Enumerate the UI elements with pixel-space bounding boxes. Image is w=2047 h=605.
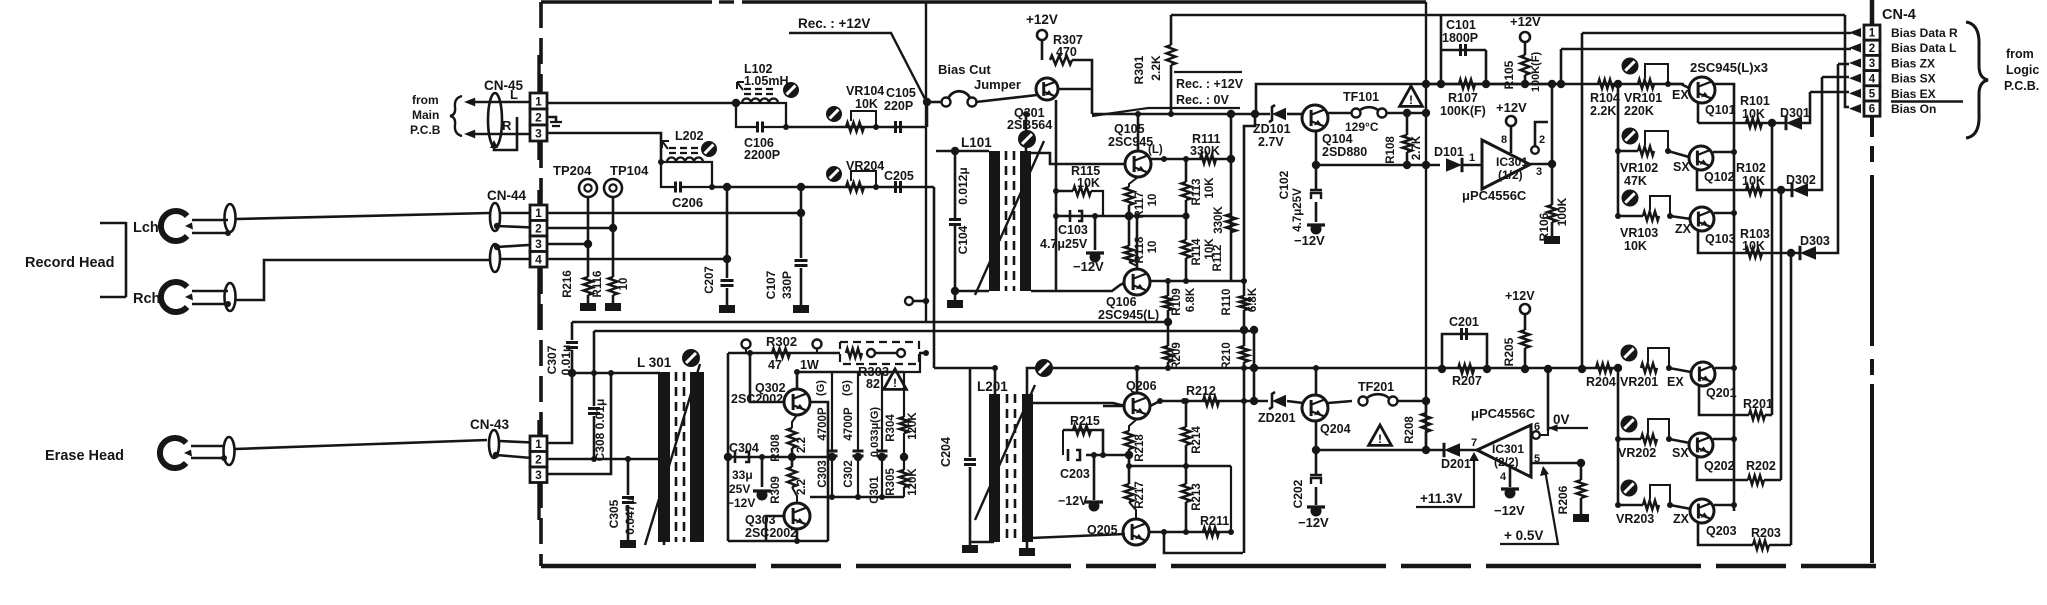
svg-text:2: 2 <box>535 110 542 124</box>
svg-text:R204: R204 <box>1586 375 1616 389</box>
svg-text:TF201: TF201 <box>1358 380 1394 394</box>
svg-text:C303: C303 <box>817 460 829 488</box>
svg-text:Q101: Q101 <box>1705 103 1736 117</box>
svg-text:6.8K: 6.8K <box>1247 287 1259 312</box>
svg-text:C308 0.01μ: C308 0.01μ <box>593 399 607 462</box>
svg-text:4700P: 4700P <box>843 407 855 441</box>
svg-text:0V: 0V <box>1553 412 1570 427</box>
svg-text:+ 0.5V: + 0.5V <box>1504 528 1543 543</box>
svg-text:470: 470 <box>1056 45 1077 59</box>
svg-text:D201: D201 <box>1441 457 1471 471</box>
svg-text:ZX: ZX <box>1673 512 1690 526</box>
svg-text:C304: C304 <box>729 441 759 455</box>
svg-text:R211: R211 <box>1200 514 1229 528</box>
svg-text:120K: 120K <box>907 468 919 496</box>
svg-text:ZX: ZX <box>1675 222 1692 236</box>
svg-text:47: 47 <box>768 358 782 372</box>
svg-text:P.C.B.: P.C.B. <box>2004 79 2039 93</box>
svg-text:VR102: VR102 <box>1620 161 1658 175</box>
svg-text:Erase Head: Erase Head <box>45 448 124 464</box>
svg-text:2: 2 <box>535 222 542 236</box>
svg-text:IC301: IC301 <box>1492 442 1524 456</box>
svg-text:Rec. : +12V: Rec. : +12V <box>1176 77 1244 91</box>
svg-text:ZD101: ZD101 <box>1253 122 1291 136</box>
svg-text:−12V: −12V <box>1294 233 1325 248</box>
svg-text:TP204: TP204 <box>553 163 592 178</box>
svg-text:L101: L101 <box>961 135 992 150</box>
svg-text:CN-43: CN-43 <box>470 417 510 432</box>
svg-text:C107: C107 <box>764 270 778 299</box>
svg-text:Q206: Q206 <box>1126 379 1157 393</box>
svg-text:CN-44: CN-44 <box>487 188 527 203</box>
svg-text:R304: R304 <box>885 414 897 442</box>
svg-text:!: ! <box>1378 432 1382 446</box>
svg-text:C302: C302 <box>843 460 855 488</box>
svg-text:Record Head: Record Head <box>25 255 114 271</box>
svg-text:0.047μ: 0.047μ <box>623 497 637 534</box>
svg-text:3: 3 <box>535 126 542 140</box>
svg-text:R214: R214 <box>1191 426 1203 454</box>
svg-text:L202: L202 <box>675 129 704 143</box>
svg-text:4700P: 4700P <box>817 407 829 441</box>
svg-text:2SD880: 2SD880 <box>1322 145 1367 159</box>
svg-text:(G): (G) <box>815 380 827 396</box>
svg-text:R202: R202 <box>1746 459 1776 473</box>
svg-text:10K: 10K <box>1624 239 1647 253</box>
svg-text:D101: D101 <box>1434 145 1464 159</box>
svg-text:2: 2 <box>535 453 542 467</box>
svg-text:R309: R309 <box>770 476 782 504</box>
svg-text:R206: R206 <box>1556 485 1570 514</box>
svg-text:1: 1 <box>1469 152 1475 164</box>
svg-text:R106: R106 <box>1537 212 1551 241</box>
svg-text:VR204: VR204 <box>846 159 884 173</box>
svg-text:2SC945(L)x3: 2SC945(L)x3 <box>1690 60 1768 75</box>
svg-text:R: R <box>502 118 512 133</box>
svg-text:C104: C104 <box>956 225 970 254</box>
svg-text:4: 4 <box>1869 73 1876 85</box>
svg-text:from: from <box>2006 47 2034 61</box>
svg-text:4: 4 <box>1500 471 1507 483</box>
svg-text:−12V: −12V <box>1298 515 1329 530</box>
svg-text:R215: R215 <box>1070 414 1100 428</box>
svg-text:(L): (L) <box>1148 144 1163 156</box>
svg-text:3: 3 <box>535 237 542 251</box>
svg-text:R212: R212 <box>1186 384 1216 398</box>
svg-text:10: 10 <box>1147 194 1159 207</box>
svg-text:C202: C202 <box>1291 479 1305 508</box>
svg-text:4.7μ25V: 4.7μ25V <box>1292 188 1304 232</box>
svg-text:D302: D302 <box>1786 173 1816 187</box>
svg-text:Bias SX: Bias SX <box>1891 72 1936 86</box>
svg-text:VR104: VR104 <box>846 84 884 98</box>
svg-text:100K: 100K <box>1555 197 1569 226</box>
svg-text:CN-4: CN-4 <box>1882 7 1916 23</box>
svg-text:L: L <box>510 87 518 102</box>
svg-text:3: 3 <box>1536 166 1542 178</box>
svg-text:EX: EX <box>1672 88 1689 102</box>
svg-text:10K: 10K <box>1204 238 1216 260</box>
svg-text:R101: R101 <box>1740 94 1770 108</box>
svg-text:C207: C207 <box>704 266 716 294</box>
svg-text:Bias ZX: Bias ZX <box>1891 56 1935 70</box>
svg-text:Q204: Q204 <box>1320 422 1351 436</box>
svg-text:3: 3 <box>535 468 542 482</box>
svg-text:(1/2): (1/2) <box>1498 168 1523 182</box>
svg-text:+12V: +12V <box>1026 12 1058 27</box>
svg-text:0.033μ(G): 0.033μ(G) <box>869 407 881 457</box>
svg-text:2.7K: 2.7K <box>1411 135 1423 160</box>
svg-text:Q103: Q103 <box>1705 232 1736 246</box>
svg-text:C101: C101 <box>1446 18 1476 32</box>
svg-text:−12V: −12V <box>1073 259 1104 274</box>
svg-text:VR101: VR101 <box>1624 91 1662 105</box>
svg-text:R213: R213 <box>1191 483 1203 511</box>
svg-text:R113: R113 <box>1191 179 1203 206</box>
svg-text:129°C: 129°C <box>1345 120 1379 134</box>
svg-text:2SC2002: 2SC2002 <box>745 526 797 540</box>
svg-text:10K: 10K <box>1742 239 1765 253</box>
svg-text:Bias EX: Bias EX <box>1891 87 1936 101</box>
svg-text:Bias On: Bias On <box>1891 102 1936 116</box>
svg-text:10: 10 <box>618 278 630 291</box>
svg-text:Rch: Rch <box>133 291 160 307</box>
svg-text:330P: 330P <box>780 271 794 299</box>
svg-text:−12V: −12V <box>1058 494 1088 508</box>
svg-text:10: 10 <box>1147 241 1159 254</box>
svg-text:2.7V: 2.7V <box>1258 135 1284 149</box>
svg-text:R218: R218 <box>1134 434 1146 462</box>
svg-text:Bias Data R: Bias Data R <box>1891 26 1958 40</box>
svg-text:R109: R109 <box>1171 288 1183 316</box>
svg-text:+12V: +12V <box>1505 289 1535 303</box>
svg-text:33μ: 33μ <box>732 468 753 482</box>
svg-text:0.012μ: 0.012μ <box>956 167 970 204</box>
svg-text:82: 82 <box>866 377 880 391</box>
svg-text:R209: R209 <box>1171 342 1183 370</box>
svg-text:Lch: Lch <box>133 220 159 236</box>
svg-text:1.05mH: 1.05mH <box>744 74 788 88</box>
svg-text:1: 1 <box>535 94 542 108</box>
svg-text:Main: Main <box>412 108 439 122</box>
svg-text:100K(F): 100K(F) <box>1440 104 1486 118</box>
svg-text:C204: C204 <box>939 437 953 467</box>
svg-text:from: from <box>412 93 439 107</box>
svg-text:R107: R107 <box>1448 91 1478 105</box>
svg-text:R207: R207 <box>1452 374 1482 388</box>
svg-text:220K: 220K <box>1624 104 1654 118</box>
svg-text:47K: 47K <box>1624 174 1647 188</box>
svg-text:L 301: L 301 <box>637 355 672 370</box>
svg-text:R210: R210 <box>1221 342 1233 370</box>
svg-text:1W: 1W <box>800 358 819 372</box>
svg-text:R205: R205 <box>1502 337 1516 366</box>
svg-text:10K: 10K <box>855 97 878 111</box>
svg-text:C206: C206 <box>672 195 703 210</box>
svg-text:R102: R102 <box>1736 161 1766 175</box>
svg-text:+12V: +12V <box>1496 100 1527 115</box>
svg-text:R104: R104 <box>1590 91 1620 105</box>
svg-text:Q202: Q202 <box>1704 459 1735 473</box>
svg-text:VR203: VR203 <box>1616 512 1654 526</box>
svg-text:R114: R114 <box>1191 238 1203 265</box>
svg-text:ZD201: ZD201 <box>1258 411 1296 425</box>
svg-text:2.2: 2.2 <box>796 437 808 453</box>
svg-text:2SC945(L): 2SC945(L) <box>1098 308 1159 322</box>
svg-text:R301: R301 <box>1132 55 1146 84</box>
svg-text:TP104: TP104 <box>610 163 649 178</box>
svg-text:6: 6 <box>1534 421 1540 433</box>
svg-text:10K: 10K <box>1204 177 1216 199</box>
svg-text:C103: C103 <box>1058 223 1088 237</box>
svg-text:C201: C201 <box>1449 315 1479 329</box>
svg-text:R217: R217 <box>1134 481 1146 509</box>
svg-text:VR201: VR201 <box>1620 375 1658 389</box>
svg-text:2SC2002: 2SC2002 <box>731 392 783 406</box>
svg-text:R201: R201 <box>1743 397 1773 411</box>
svg-text:!: ! <box>893 376 897 390</box>
svg-text:SX: SX <box>1672 446 1689 460</box>
svg-text:5: 5 <box>1869 89 1876 101</box>
svg-text:C105: C105 <box>886 86 916 100</box>
svg-text:Logic: Logic <box>2006 63 2039 77</box>
svg-text:C307: C307 <box>545 345 559 374</box>
svg-text:L201: L201 <box>977 379 1008 394</box>
svg-text:SX: SX <box>1673 160 1690 174</box>
svg-text:0.01μ: 0.01μ <box>559 345 573 376</box>
svg-text:Bias Cut: Bias Cut <box>938 62 991 77</box>
svg-text:P.C.B: P.C.B <box>410 123 441 137</box>
svg-text:2: 2 <box>1539 134 1545 146</box>
svg-text:4.7μ25V: 4.7μ25V <box>1040 237 1088 251</box>
svg-text:6.8K: 6.8K <box>1185 287 1197 312</box>
svg-text:1: 1 <box>535 437 542 451</box>
svg-text:1: 1 <box>1869 28 1876 40</box>
svg-text:10K: 10K <box>1077 176 1100 190</box>
svg-text:Q205: Q205 <box>1087 523 1118 537</box>
svg-text:Rec. : 0V: Rec. : 0V <box>1176 93 1229 107</box>
svg-text:120K: 120K <box>907 412 919 440</box>
svg-text:Q203: Q203 <box>1706 524 1737 538</box>
svg-text:10K: 10K <box>1742 174 1765 188</box>
svg-text:R302: R302 <box>766 334 797 349</box>
svg-text:330K: 330K <box>1190 144 1220 158</box>
svg-text:220P: 220P <box>884 99 913 113</box>
svg-text:D301: D301 <box>1780 106 1810 120</box>
svg-text:25V: 25V <box>729 482 750 496</box>
svg-text:!: ! <box>1409 93 1413 107</box>
svg-text:7: 7 <box>1471 437 1477 449</box>
svg-text:3: 3 <box>1869 58 1875 70</box>
svg-text:IC301: IC301 <box>1496 155 1528 169</box>
svg-text:C203: C203 <box>1060 467 1090 481</box>
svg-text:R116: R116 <box>592 271 604 298</box>
svg-text:2200P: 2200P <box>744 148 780 162</box>
svg-text:C102: C102 <box>1277 170 1291 199</box>
svg-text:330K: 330K <box>1213 206 1225 234</box>
svg-text:2SB564: 2SB564 <box>1007 118 1052 132</box>
svg-text:2.2: 2.2 <box>796 479 808 495</box>
svg-text:2.2K: 2.2K <box>1590 104 1616 118</box>
svg-text:−12V: −12V <box>1494 503 1525 518</box>
svg-text:Q106: Q106 <box>1106 295 1137 309</box>
svg-text:Q102: Q102 <box>1704 170 1735 184</box>
svg-text:2.2K: 2.2K <box>1149 55 1163 81</box>
svg-text:C205: C205 <box>884 169 914 183</box>
svg-text:μPC4556C: μPC4556C <box>1462 188 1527 203</box>
svg-text:VR202: VR202 <box>1618 446 1656 460</box>
svg-text:−12V: −12V <box>727 496 755 510</box>
svg-text:8: 8 <box>1501 134 1507 146</box>
svg-text:1: 1 <box>535 206 542 220</box>
svg-text:2SC945: 2SC945 <box>1108 135 1153 149</box>
svg-text:2: 2 <box>1869 43 1875 55</box>
svg-text:Rec. : +12V: Rec. : +12V <box>798 16 870 31</box>
svg-text:+11.3V: +11.3V <box>1420 491 1462 506</box>
svg-text:EX: EX <box>1667 375 1684 389</box>
svg-text:R216: R216 <box>562 270 574 298</box>
svg-text:Jumper: Jumper <box>974 77 1021 92</box>
svg-text:R203: R203 <box>1751 526 1781 540</box>
svg-text:(2/2): (2/2) <box>1494 455 1519 469</box>
svg-text:R108: R108 <box>1385 136 1397 164</box>
svg-text:Q201: Q201 <box>1706 386 1737 400</box>
svg-text:(G): (G) <box>841 380 853 396</box>
svg-text:1800P: 1800P <box>1442 31 1478 45</box>
svg-text:10K: 10K <box>1742 107 1765 121</box>
svg-text:C301: C301 <box>869 476 881 504</box>
svg-text:C305: C305 <box>607 499 621 528</box>
svg-text:R305: R305 <box>885 468 897 496</box>
svg-text:Bias Data L: Bias Data L <box>1891 41 1956 55</box>
svg-text:R110: R110 <box>1221 289 1233 316</box>
svg-text:6: 6 <box>1869 104 1875 116</box>
svg-text:D303: D303 <box>1800 234 1830 248</box>
svg-text:Q105: Q105 <box>1114 122 1145 136</box>
svg-text:μPC4556C: μPC4556C <box>1471 406 1536 421</box>
svg-text:VR103: VR103 <box>1620 226 1658 240</box>
svg-text:R208: R208 <box>1404 416 1416 444</box>
svg-text:4: 4 <box>535 253 542 267</box>
svg-text:Q104: Q104 <box>1322 132 1353 146</box>
svg-text:TF101: TF101 <box>1343 90 1379 104</box>
svg-text:100K(F): 100K(F) <box>1530 51 1542 92</box>
